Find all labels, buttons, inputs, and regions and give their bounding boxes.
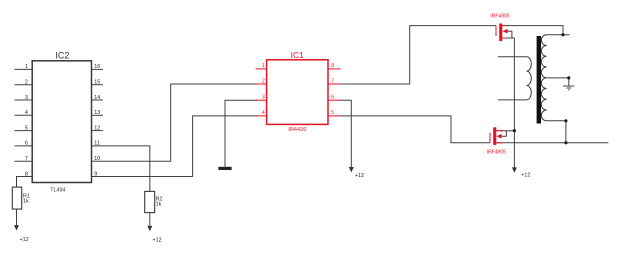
svg-text:3: 3 — [262, 95, 265, 101]
svg-text:IR4426: IR4426 — [288, 127, 306, 133]
svg-text:1k: 1k — [23, 199, 29, 205]
svg-text:10: 10 — [94, 156, 100, 162]
svg-text:3: 3 — [25, 95, 28, 101]
svg-text:IC1: IC1 — [291, 50, 305, 60]
svg-text:1k: 1k — [156, 202, 162, 208]
svg-text:4: 4 — [262, 110, 265, 116]
svg-text:2: 2 — [262, 78, 265, 84]
svg-text:11: 11 — [94, 141, 100, 147]
svg-text:IRF4905: IRF4905 — [487, 150, 506, 156]
svg-text:7: 7 — [331, 78, 334, 84]
svg-text:9: 9 — [94, 171, 97, 177]
svg-text:5: 5 — [25, 125, 28, 131]
svg-text:IC2: IC2 — [55, 51, 69, 61]
svg-text:+12: +12 — [521, 173, 530, 179]
svg-text:8: 8 — [25, 171, 28, 177]
svg-text:+12: +12 — [20, 237, 29, 243]
svg-text:12: 12 — [94, 125, 100, 131]
svg-text:IRF4905: IRF4905 — [490, 14, 509, 20]
svg-text:6: 6 — [25, 141, 28, 147]
svg-text:TL494: TL494 — [50, 188, 65, 194]
svg-text:14: 14 — [94, 95, 100, 101]
svg-text:4: 4 — [25, 110, 28, 116]
svg-text:13: 13 — [94, 110, 100, 116]
svg-text:6: 6 — [331, 95, 334, 101]
svg-text:1: 1 — [262, 63, 265, 69]
svg-text:7: 7 — [25, 156, 28, 162]
svg-text:8: 8 — [331, 63, 334, 69]
svg-text:+12: +12 — [355, 173, 364, 179]
svg-text:16: 16 — [94, 64, 100, 70]
svg-text:5: 5 — [331, 110, 334, 116]
svg-text:+12: +12 — [153, 238, 162, 244]
svg-text:15: 15 — [94, 80, 100, 86]
svg-text:2: 2 — [25, 80, 28, 86]
svg-text:1: 1 — [25, 64, 28, 70]
